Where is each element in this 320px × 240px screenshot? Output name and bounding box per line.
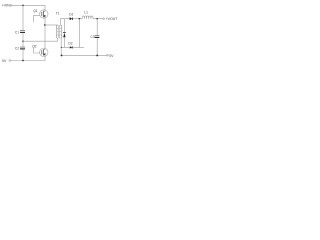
node junction C3/0V bbox=[96, 54, 98, 56]
svg-text:0V: 0V bbox=[2, 59, 7, 63]
core bbox=[58, 25, 60, 38]
node junction mid-rail/caps bbox=[22, 40, 24, 42]
diode D2 bbox=[63, 19, 73, 48]
wire C1 to mid rail bbox=[22, 33, 24, 47]
svg-text:D1: D1 bbox=[69, 13, 73, 17]
svg-text:+VOUT: +VOUT bbox=[106, 17, 119, 21]
primary winding bbox=[56, 25, 58, 38]
capacitor C3 bbox=[90, 35, 99, 39]
wire C2 to 0V rail bbox=[22, 49, 24, 60]
capacitor C2 bbox=[15, 46, 25, 50]
transistor Q2 bbox=[32, 45, 48, 57]
wire D1 to L1 bbox=[73, 18, 82, 20]
svg-text:T1: T1 bbox=[56, 12, 60, 16]
node junction 0V/C2 bbox=[22, 60, 24, 62]
svg-text:0V: 0V bbox=[109, 54, 114, 58]
wire Q2 gate stub bbox=[34, 48, 40, 53]
transformer T1 bbox=[56, 12, 62, 39]
diode D1 bbox=[69, 13, 73, 21]
wire secondary bottom down bbox=[60, 38, 62, 55]
wire output rail pre-D1 bbox=[64, 18, 69, 20]
wire C3 lower bbox=[96, 38, 98, 56]
svg-text:C1: C1 bbox=[15, 30, 19, 34]
svg-text:+VIN: +VIN bbox=[2, 4, 10, 8]
wire C3 upper bbox=[96, 19, 98, 36]
wire C1 branch upper bbox=[22, 5, 24, 30]
svg-text:Q1: Q1 bbox=[33, 9, 37, 13]
wire freewheel horizontal bbox=[61, 46, 84, 48]
wire mid rail to T1 primary bottom bbox=[23, 38, 58, 41]
wire freewheel vertical bbox=[78, 19, 80, 48]
wire Q1 gate stub bbox=[33, 16, 39, 22]
svg-text:C3: C3 bbox=[90, 35, 94, 39]
wire primary top bbox=[45, 24, 58, 26]
wire switch node bbox=[44, 17, 46, 50]
node junction C3 bbox=[96, 18, 98, 20]
wire 0V rail left bbox=[11, 60, 45, 62]
diode D3 bbox=[70, 46, 72, 48]
wire 0V rail right bbox=[61, 54, 106, 56]
node junction freewheel bbox=[79, 18, 81, 20]
wire top VIN rail bbox=[12, 5, 45, 11]
svg-text:Q2: Q2 bbox=[32, 45, 36, 49]
svg-text:C2: C2 bbox=[15, 46, 19, 50]
wire Q2 source to 0V bbox=[44, 55, 46, 61]
secondary winding bbox=[60, 25, 62, 38]
node 0V terminal left bbox=[2, 59, 11, 63]
node junction secondary/0V bbox=[61, 54, 63, 56]
node junction VIN/C1 bbox=[22, 5, 24, 7]
wire secondary top to output rail bbox=[61, 19, 65, 26]
inductor L1 bbox=[82, 11, 93, 19]
node junction switch/primary bbox=[44, 24, 46, 26]
node +VOUT terminal bbox=[103, 17, 118, 21]
node junction secondary/freewheel bbox=[61, 47, 62, 48]
svg-text:L1: L1 bbox=[84, 11, 88, 15]
wire L1 to VOUT bbox=[93, 18, 103, 20]
capacitor C1 bbox=[15, 30, 25, 34]
node +VIN terminal bbox=[2, 4, 12, 8]
node 0V terminal right bbox=[107, 54, 114, 58]
transistor Q1 bbox=[33, 9, 48, 18]
svg-text:D2: D2 bbox=[68, 42, 72, 46]
